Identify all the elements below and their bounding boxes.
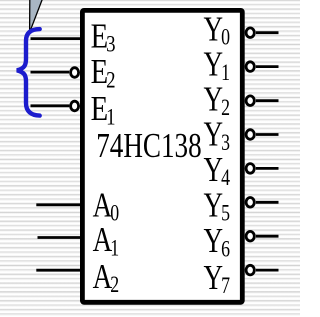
wire A2 <box>36 269 80 272</box>
pin label E1 <box>91 88 116 129</box>
bubble Y2 <box>246 96 254 106</box>
wire E1 <box>31 104 70 107</box>
pin label Y3 <box>204 114 231 155</box>
pin label E2 <box>91 51 116 92</box>
pin label Y1 <box>204 44 231 85</box>
bubble Y4 <box>246 164 254 174</box>
wire Y3 <box>256 133 279 136</box>
IC body 74HC138 <box>82 10 242 302</box>
wire Y4 <box>256 167 279 170</box>
wire E3 <box>31 37 81 40</box>
bubble Y0 <box>246 28 254 38</box>
pin label E3 <box>91 16 116 57</box>
pin label A0 <box>93 185 120 226</box>
wire Y7 <box>256 269 279 272</box>
pin label Y6 <box>204 221 231 262</box>
wire A1 <box>38 236 81 239</box>
pin label Y4 <box>204 150 231 191</box>
wire E2 <box>31 71 70 74</box>
wire Y0 <box>256 31 279 34</box>
wire Y6 <box>256 235 279 238</box>
pin label Y5 <box>204 185 231 226</box>
bubble Y7 <box>246 265 254 275</box>
pin label Y7 <box>204 258 231 299</box>
wire A0 <box>36 203 80 206</box>
bubble Y6 <box>246 231 254 241</box>
bubble Y5 <box>246 198 254 208</box>
pin label Y2 <box>204 79 231 120</box>
bubble Y3 <box>246 130 254 140</box>
bubble Y1 <box>246 62 254 72</box>
wire Y2 <box>256 99 279 102</box>
bubble E1 <box>71 101 79 111</box>
wire Y1 <box>256 65 279 68</box>
pin label Y0 <box>204 9 231 50</box>
blue brace grouping enables <box>17 29 40 116</box>
pin label A2 <box>93 257 120 298</box>
bubble E2 <box>71 68 79 78</box>
pin label A1 <box>93 220 120 261</box>
wire Y5 <box>256 201 279 204</box>
part name 74HC138 <box>96 126 201 165</box>
svg-text:74HC138: 74HC138 <box>96 126 201 165</box>
cursor pointer <box>30 0 43 32</box>
